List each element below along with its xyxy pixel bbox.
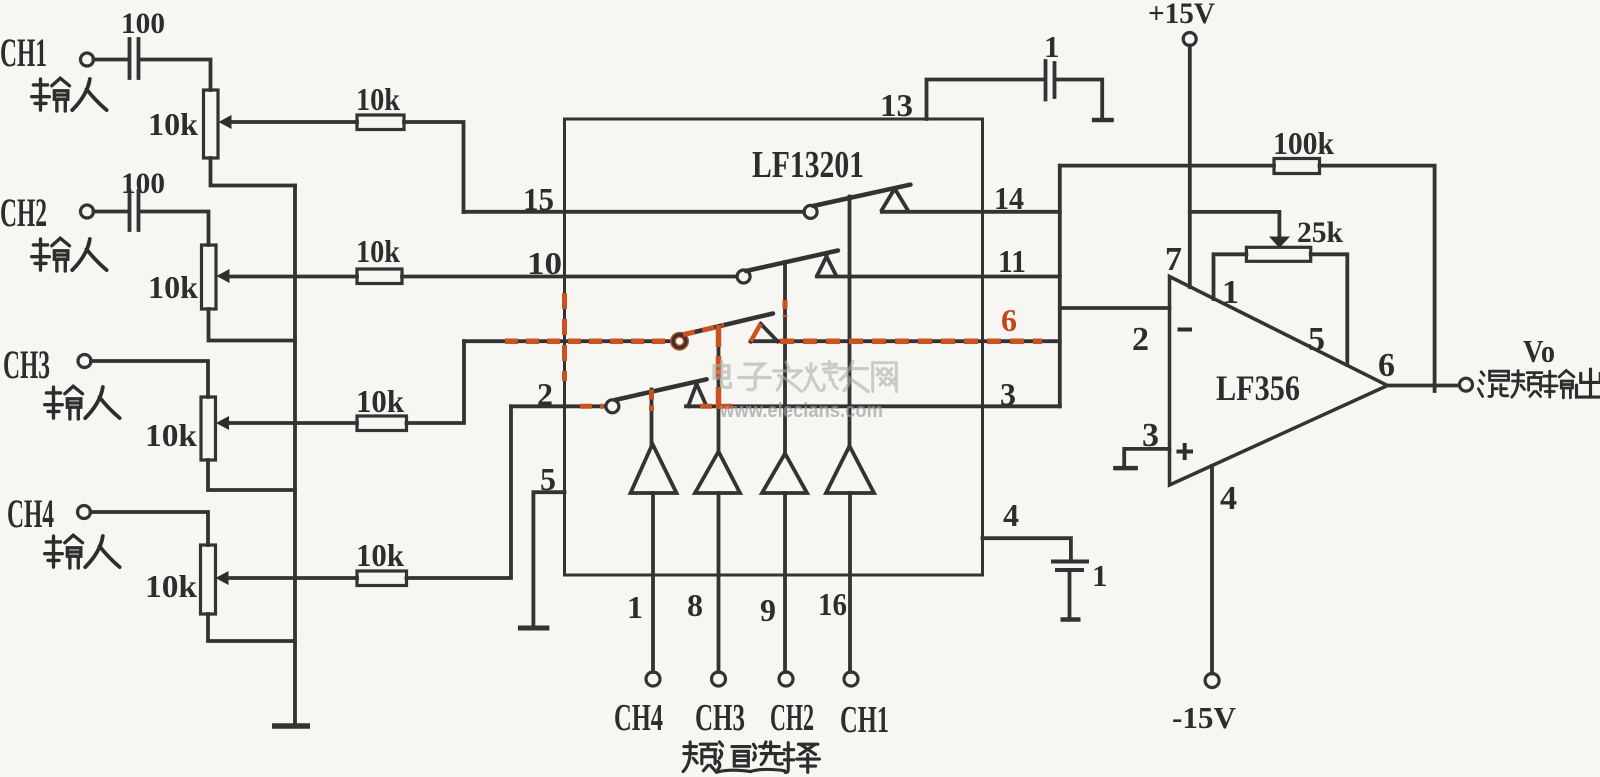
highlight CH3 path: row3 right dashes (780, 338, 1042, 344)
wire 25k right to op-amp pin 5 (1311, 254, 1348, 365)
IC U1 LF13201 outline (565, 119, 983, 575)
terminal Vo (1460, 378, 1473, 391)
wire S3 control line to buffer B2 (717, 327, 721, 453)
wire CH1 terminal to C1 (94, 58, 128, 62)
svg-text:CH4: CH4 (614, 697, 663, 739)
potentiometer RP2 10k (202, 245, 217, 309)
wire row4 right (pin 3 to bus) (686, 404, 1060, 408)
potentiometer RP1 10k (204, 90, 219, 158)
svg-text:10k: 10k (145, 417, 197, 453)
wire RP4 bottom to ground bus (208, 614, 295, 641)
wire S1 control line to buffer B4 (848, 197, 852, 447)
svg-text:1: 1 (1044, 29, 1060, 64)
resistor R2 10k (357, 269, 402, 284)
ground (pin 5) (518, 626, 550, 631)
label CH4 shu-ru (input) (45, 535, 120, 568)
plus sign (non-inverting input) (1177, 443, 1194, 460)
resistor R4 10k (357, 571, 407, 586)
op-amp U2 LF356 (1170, 277, 1388, 486)
wire feedback right to output (1320, 166, 1435, 385)
potentiometer RP4 10k (201, 545, 216, 614)
wire row2 right (pin 11 to bus) (817, 275, 1060, 279)
wire RP1 wiper to R1 (231, 120, 357, 124)
svg-text:10k: 10k (145, 568, 197, 604)
wire op-amp pin 4 to -15V (1210, 466, 1214, 674)
wire row1 left (pin 15) (464, 210, 805, 214)
svg-text:2: 2 (1132, 321, 1149, 358)
potentiometer RP3 10k (201, 397, 216, 460)
switch S3 contact circle (highlighted) (673, 335, 686, 348)
wire bus to op-amp inverting input (1060, 306, 1170, 310)
switch S2 contact circle (737, 270, 750, 283)
terminal CH4 (78, 506, 91, 519)
svg-text:10k: 10k (356, 383, 404, 419)
highlight CH3 path: arm segment (683, 325, 724, 335)
wire pin 5 to ground (533, 492, 564, 628)
svg-text:10k: 10k (356, 233, 400, 269)
svg-text:10k: 10k (148, 269, 198, 305)
potentiometer RP5 25k (1246, 247, 1310, 261)
label CH2 shu-ru (input) (32, 238, 107, 271)
terminal CH4 select (646, 672, 660, 686)
label channel-select (pin dao xuan ze) (683, 742, 819, 773)
svg-text:14: 14 (994, 180, 1024, 216)
svg-text:CH1: CH1 (0, 30, 47, 75)
switch S2 control triangle (817, 257, 836, 276)
svg-text:www.elecians.com: www.elecians.com (719, 400, 883, 422)
capacitor C1 (100) (130, 39, 139, 78)
svg-text:6: 6 (1001, 302, 1017, 338)
svg-text:1: 1 (627, 589, 643, 625)
svg-text:CH1: CH1 (840, 699, 889, 741)
resistor R3 10k (357, 416, 407, 431)
wire output (1388, 384, 1460, 388)
terminal +15V (1183, 33, 1196, 46)
wire RP1 bottom to ground bus (211, 158, 296, 186)
ground (pot bus) (272, 723, 310, 729)
buffer B4 (CH1 driver) (826, 446, 874, 493)
highlight CH3 path: control line (716, 325, 722, 410)
svg-text:6: 6 (1378, 347, 1395, 384)
ground (C4) (1061, 617, 1081, 622)
watermark dianzi fashaoyou wang (714, 361, 896, 391)
wire row3 right (pin 6 to bus) (751, 339, 1060, 343)
switch S1 control triangle (882, 189, 908, 210)
wire S2 control line to buffer B3 (783, 262, 787, 454)
label mixed output (hun pin shu chu) (1478, 369, 1600, 398)
wire CH4 terminal to pot RP4 (91, 512, 209, 545)
terminal CH3 select (712, 672, 726, 686)
svg-text:11: 11 (998, 243, 1026, 279)
wire B2 input to terminal (717, 493, 721, 672)
wire +15V branch to 25k wiper (1190, 212, 1280, 237)
switch S1 arm (813, 185, 911, 206)
arrow 25k wiper (1269, 237, 1290, 249)
svg-text:16: 16 (818, 586, 847, 622)
svg-text:4: 4 (1220, 480, 1237, 517)
wire pin 13 to C3 (927, 80, 1045, 120)
wire RP2 bottom to ground bus (209, 309, 296, 341)
switch S4 arm (615, 379, 707, 400)
switch S4 contact circle (606, 400, 619, 413)
highlight row4 dashes (580, 404, 738, 409)
wire C3 to ground (1056, 80, 1102, 119)
svg-text:100k: 100k (1273, 125, 1334, 161)
svg-text:13: 13 (880, 87, 913, 123)
svg-text:25k: 25k (1297, 216, 1343, 249)
wire 25k left to op-amp pin 1 (1214, 254, 1247, 299)
capacitor C4 (1) (1051, 562, 1089, 571)
svg-text:4: 4 (1003, 497, 1019, 533)
wire summing bus (1058, 166, 1062, 407)
terminal CH3 (78, 355, 91, 368)
switch S2 arm (746, 251, 838, 272)
highlight B3 control top dashes (783, 300, 788, 317)
label CH3 shu-ru (input) (45, 386, 120, 419)
svg-text:+15V: +15V (1148, 0, 1215, 30)
wire R4 to row2 riser (407, 406, 512, 578)
svg-text:100: 100 (121, 7, 165, 40)
svg-text:LF13201: LF13201 (752, 144, 864, 186)
buffer B2 (CH3 driver) (695, 452, 740, 494)
svg-text:10k: 10k (148, 106, 198, 142)
svg-text:8: 8 (687, 587, 703, 623)
label CH1 shu-ru (input) (32, 78, 107, 111)
wire RP3 bottom to ground bus (208, 460, 295, 490)
svg-text:CH4: CH4 (7, 491, 54, 536)
wire non-inverting input to ground (1124, 449, 1169, 468)
wire S4 control line to buffer B1 (650, 390, 654, 445)
terminal CH2 (81, 205, 94, 218)
wire RP4 wiper to R4 (228, 576, 357, 580)
svg-text:3: 3 (1000, 376, 1016, 412)
highlight CH3 path: row3 left dashes (505, 338, 668, 344)
svg-text:CH3: CH3 (695, 697, 745, 739)
svg-text:7: 7 (1165, 241, 1182, 278)
terminal CH1 select (844, 672, 858, 686)
minus sign (inverting input) (1178, 328, 1193, 332)
wire CH3 terminal to pot RP3 (91, 361, 208, 397)
highlight CH3 path: S3 triangle left leg (751, 324, 761, 342)
svg-text:10: 10 (527, 245, 562, 281)
wire pin 4 to C4 (983, 538, 1071, 561)
wire B1 input to terminal (651, 493, 655, 672)
capacitor C2 (100) (130, 191, 139, 230)
svg-text:Vo: Vo (1523, 333, 1555, 369)
terminal CH2 select (779, 672, 793, 686)
wire RP3 wiper to R3 (229, 421, 358, 425)
svg-text:LF356: LF356 (1216, 368, 1300, 408)
buffer B3 (CH2 driver) (762, 454, 807, 494)
buffer B1 (CH4 driver) (631, 444, 677, 493)
ground (op-amp +) (1113, 466, 1138, 471)
wire +15V to op-amp pin 7 (1188, 46, 1192, 288)
wire feedback junction tick (1433, 385, 1437, 391)
svg-text:-15V: -15V (1172, 700, 1237, 735)
svg-text:9: 9 (760, 592, 776, 628)
svg-text:1: 1 (1092, 558, 1108, 593)
wire feedback left (1060, 164, 1274, 168)
svg-text:10k: 10k (356, 81, 400, 117)
highlight S4 control top (649, 390, 654, 412)
svg-text:CH3: CH3 (3, 342, 50, 387)
ground (C3) (1092, 118, 1114, 123)
wire CH2 terminal to C2 (94, 210, 128, 214)
wire row1 right (pin 14 to bus) (882, 210, 1060, 214)
switch S4 control triangle (688, 384, 707, 406)
wire C2 to pot RP2 top (140, 212, 209, 246)
terminal CH1 (81, 53, 94, 66)
switch S3 control triangle (751, 324, 778, 342)
switch S3 arm (682, 314, 773, 336)
terminal -15V (1205, 674, 1219, 688)
resistor R5 100k (1274, 159, 1320, 174)
wire R3 to row6 riser (407, 341, 465, 423)
wire ground bus (293, 186, 297, 727)
wire B3 input to terminal (783, 493, 787, 672)
wire R2 to switch S2 (pin 10 row) (402, 275, 737, 279)
svg-text:100: 100 (121, 167, 165, 200)
svg-text:CH2: CH2 (0, 190, 47, 235)
resistor R1 10k (357, 115, 404, 130)
capacitor C3 (1) (1046, 61, 1055, 100)
wire row3 left (to S3) (464, 339, 673, 343)
switch S1 contact circle (804, 205, 817, 218)
wire row4 left (pin 2) (511, 404, 606, 408)
svg-text:10k: 10k (356, 537, 404, 573)
highlight on box left edge (562, 293, 567, 381)
wire C1 to pot R1 top (140, 60, 211, 91)
wire C4 to ground (1068, 570, 1072, 618)
wire RP2 wiper to R2 (229, 275, 357, 279)
svg-text:CH2: CH2 (770, 697, 814, 739)
wire B4 input to terminal (848, 493, 852, 672)
wire R1 to pin15 row (404, 122, 464, 212)
